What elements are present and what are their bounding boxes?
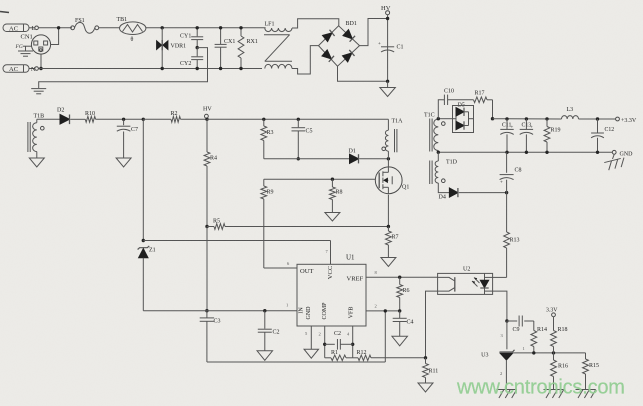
scan artifact top-left bbox=[0, 12, 9, 13]
ground below R11 bbox=[418, 383, 433, 392]
resistor R17 bbox=[474, 91, 493, 103]
U1 pin label VCC bbox=[327, 266, 334, 279]
ground earth chassis bbox=[31, 89, 46, 94]
op-amp U1 box bbox=[297, 254, 366, 327]
junction Q1 source bbox=[387, 225, 390, 228]
node +3.3V terminal bbox=[616, 117, 637, 124]
junction C1 bottom bbox=[386, 80, 389, 83]
resistor R19 bbox=[544, 119, 560, 152]
junction C5 bottom bbox=[297, 157, 300, 160]
transistor Q1 bbox=[375, 159, 409, 194]
bridge diode NW bbox=[323, 30, 335, 42]
resistor R8 bbox=[330, 179, 343, 212]
wire U2 emitter bbox=[426, 291, 438, 358]
junction CX1 bottom bbox=[219, 67, 222, 70]
diode D4 bbox=[439, 188, 507, 201]
capacitor C4 bbox=[393, 311, 414, 336]
AC input terminal N bbox=[3, 65, 38, 73]
diode D2 bbox=[57, 108, 85, 125]
capacitor C3 bbox=[200, 311, 221, 362]
ground below U3 bbox=[496, 390, 516, 399]
capacitor CY2 bbox=[180, 48, 203, 69]
thermistor TB1 bbox=[117, 17, 146, 43]
wire Q1 source bbox=[387, 195, 389, 227]
capacitor C2 COMP network bbox=[325, 331, 353, 350]
wire bbox=[146, 27, 266, 29]
wire IN line bbox=[143, 303, 297, 311]
junction C5 top bbox=[297, 118, 300, 121]
junction VDR1 top bbox=[161, 26, 164, 29]
U1 GND pin bbox=[305, 326, 311, 349]
junction snubber out bbox=[491, 117, 494, 120]
capacitor C10 bbox=[443, 89, 474, 106]
node FG bbox=[15, 44, 32, 50]
wire VCC horizontal bbox=[143, 240, 330, 242]
wire output line bbox=[493, 118, 562, 120]
ground below C2 bbox=[257, 351, 273, 361]
junction R14 ref bbox=[532, 351, 535, 354]
ground below R7 bbox=[381, 258, 396, 267]
transformer winding T1D bbox=[430, 152, 458, 192]
junction R18 ref bbox=[552, 351, 555, 354]
junction C11 top bbox=[505, 117, 508, 120]
resistor R12 bbox=[353, 350, 426, 361]
resistor R9 bbox=[261, 179, 274, 268]
junction RX1 bottom bbox=[239, 67, 242, 70]
node HV terminal aux bbox=[203, 107, 212, 119]
junction CY mid bbox=[196, 46, 199, 49]
wire VCC pin drop bbox=[326, 241, 331, 265]
AC input terminal L bbox=[3, 24, 38, 32]
resistor R7 bbox=[386, 227, 399, 258]
junction HV bbox=[386, 17, 389, 20]
resistor R4 bbox=[204, 152, 217, 227]
resistor R3 bbox=[261, 119, 274, 159]
transformer winding T1C bbox=[424, 113, 445, 153]
U1 pin label VFB bbox=[349, 307, 355, 319]
capacitor C2 bbox=[258, 311, 280, 351]
common-mode choke LF1 bbox=[264, 22, 292, 69]
wire bridge out to HV bbox=[360, 19, 388, 46]
wire U2 cathode to U3 bbox=[493, 291, 507, 321]
wire R4 line bottom bbox=[206, 227, 208, 311]
wire R4 line top bbox=[206, 119, 208, 152]
junction C2 top bbox=[263, 309, 266, 312]
ground below R15 bbox=[576, 390, 596, 399]
ground below U1 GND bbox=[304, 349, 319, 358]
junction C13 bottom bbox=[525, 151, 528, 154]
resistor R6 bbox=[397, 277, 410, 311]
capacitor CX1 bbox=[215, 28, 236, 69]
wire LF1 top to bridge bbox=[292, 19, 339, 28]
U1 pin label COMP bbox=[322, 302, 328, 320]
U1 pin label VREF bbox=[347, 276, 364, 283]
resistor R10 bbox=[85, 111, 143, 122]
wire CN1 pin to L bbox=[51, 28, 59, 45]
junction HV rail bbox=[205, 118, 208, 121]
junction R19 bottom bbox=[545, 151, 548, 154]
transformer winding T1A bbox=[382, 119, 403, 159]
resistor R14 bbox=[531, 321, 547, 353]
wire HV rail bbox=[207, 118, 388, 120]
junction VCC branch bbox=[142, 118, 145, 121]
junction R12 R11 bbox=[424, 356, 427, 359]
ground below R8 bbox=[325, 213, 340, 222]
node GND terminal bbox=[612, 150, 633, 157]
wire C3 ground rail bbox=[207, 361, 385, 363]
wire bbox=[99, 27, 120, 29]
wire GND line bbox=[438, 151, 612, 153]
wire OUT pin bbox=[264, 261, 297, 268]
fuse FS1 bbox=[71, 18, 99, 33]
capacitor C9 bbox=[507, 316, 534, 334]
capacitor C5 bbox=[292, 119, 313, 159]
junction CY2 bottom bbox=[196, 67, 199, 70]
wire CY mid to earth bbox=[39, 48, 208, 88]
wire to R13 bbox=[506, 193, 508, 232]
junction T1A bottom bbox=[387, 157, 390, 160]
ground FG earth bbox=[18, 46, 33, 56]
wire to 3.3V bbox=[579, 118, 616, 120]
capacitor C7 bbox=[117, 119, 138, 158]
resistor R11 bbox=[423, 358, 439, 383]
resistor R5 bbox=[207, 219, 388, 230]
junction CX1 top bbox=[219, 26, 222, 29]
junction C9 line bbox=[505, 319, 508, 322]
wire LF1 bottom to bridge bbox=[292, 46, 319, 74]
junction comp b bbox=[351, 343, 354, 346]
junction D4 out bbox=[505, 191, 508, 194]
wire bbox=[38, 27, 72, 29]
wire snubber down bbox=[492, 100, 494, 119]
resistor R15 bbox=[583, 353, 599, 389]
wire U3 cathode bbox=[501, 321, 507, 349]
bridge diode SE bbox=[343, 50, 355, 62]
resistor R18 bbox=[551, 317, 568, 353]
junction R8 top bbox=[331, 178, 334, 181]
junction R19 top bbox=[545, 117, 548, 120]
varistor VDR1 bbox=[157, 28, 187, 69]
bridge rectifier BD1 bbox=[319, 21, 360, 66]
junction on N line bbox=[39, 67, 42, 70]
wire D5 input bbox=[438, 118, 452, 120]
junction T1C top bbox=[437, 117, 440, 120]
capacitor C13 bbox=[520, 119, 533, 152]
junction VDR1 bottom bbox=[161, 67, 164, 70]
ground below C1 bbox=[380, 81, 396, 96]
inductor L3 bbox=[562, 107, 579, 119]
U2 LED bbox=[472, 273, 493, 294]
resistor R13 bbox=[504, 232, 520, 277]
capacitor C8 bbox=[500, 152, 522, 192]
junction comp a bbox=[323, 343, 326, 346]
junction VFB R6 bbox=[398, 309, 401, 312]
junction VFB rail bbox=[384, 309, 387, 312]
U1 VFB pin wire bbox=[366, 304, 400, 311]
junction C13 top bbox=[525, 117, 528, 120]
watermark www.cntronics.com bbox=[456, 377, 625, 399]
junction C12 top bbox=[596, 117, 599, 120]
junction C11 bottom bbox=[505, 151, 508, 154]
U1 pin label GND bbox=[306, 306, 312, 320]
ground GND hatch bbox=[604, 154, 626, 171]
U1 COMP pin bbox=[319, 326, 325, 358]
wire bridge bottom bbox=[338, 66, 388, 81]
diode D1 bbox=[349, 149, 389, 164]
junction T1C bottom bbox=[437, 151, 440, 154]
capacitor C1 bbox=[378, 42, 404, 52]
wire VCC line bbox=[142, 119, 144, 240]
wire aux rail bbox=[37, 118, 60, 120]
U1 pin label IN bbox=[299, 307, 305, 314]
wire CN1 bottom pin to N bbox=[40, 54, 42, 69]
U1 pin label OUT bbox=[300, 268, 313, 275]
wire R13 to LED bbox=[493, 276, 507, 278]
capacitor C11 bbox=[500, 119, 513, 152]
shunt regulator U3 bbox=[481, 350, 514, 389]
transformer winding T1B bbox=[28, 114, 44, 159]
U2 phototransistor bbox=[438, 277, 455, 291]
wire rail to VFB bbox=[384, 311, 386, 362]
junction on L line bbox=[57, 26, 60, 29]
junction C3 top bbox=[205, 309, 208, 312]
ground below C4 bbox=[392, 336, 408, 346]
wire snubber bottom bbox=[264, 158, 350, 160]
optocoupler U2 box bbox=[438, 267, 493, 295]
junction R3 top bbox=[262, 118, 265, 121]
connector CN1 bbox=[21, 34, 51, 55]
junction Z1 top bbox=[142, 239, 145, 242]
resistor R2 bbox=[143, 111, 207, 122]
wire gate line bbox=[264, 178, 375, 180]
bridge diode NE bbox=[343, 30, 355, 42]
node 3.3V terminal bbox=[546, 308, 558, 317]
junction RX1 top bbox=[239, 26, 242, 29]
resistor RX1 bbox=[238, 28, 258, 69]
capacitor C12 bbox=[591, 119, 614, 152]
U1 VREF pin wire bbox=[366, 270, 438, 277]
ground below C7 bbox=[116, 158, 131, 167]
junction R5 bbox=[205, 225, 208, 228]
U1 RC pin bbox=[347, 326, 353, 358]
bridge diode SW bbox=[322, 50, 334, 62]
ground below T1B bbox=[29, 158, 44, 167]
resistor R16 bbox=[551, 353, 568, 389]
wire snubber up bbox=[438, 100, 442, 119]
junction C7 top bbox=[122, 118, 125, 121]
node HV terminal bbox=[381, 5, 391, 81]
zener Z1 bbox=[138, 246, 156, 311]
junction CY1 top bbox=[196, 26, 199, 29]
junction VREF R6 bbox=[398, 276, 401, 279]
wire U3 ref bbox=[513, 346, 586, 353]
resistor R1 bbox=[325, 350, 353, 361]
junction C12 bottom bbox=[596, 151, 599, 154]
capacitor CY1 bbox=[180, 28, 203, 48]
dual diode D5 bbox=[453, 102, 474, 132]
ground below R16 bbox=[544, 390, 564, 399]
wire N line bbox=[38, 68, 262, 70]
